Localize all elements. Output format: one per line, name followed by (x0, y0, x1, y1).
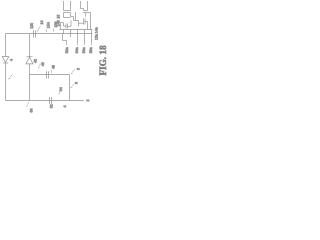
diode D1 (cathode down) (2, 57, 9, 63)
label 62 below C3 (50, 104, 54, 108)
capacitor C3 on bottom rail (50, 97, 52, 104)
lead with jog below main rail, arrow, label 52 (63, 34, 69, 54)
transistor M3 (vertical bars with horizontal leads) (79, 19, 88, 30)
leader arrow to top rail right of C1, label 16 (37, 21, 44, 32)
leader arrow at left rail (8, 74, 13, 79)
wire: block bottom bus (60, 29, 93, 31)
svg-text:15: 15 (56, 15, 60, 19)
wire: step to center vertical (74, 12, 79, 21)
capacitor C1 on top rail (34, 30, 36, 37)
svg-text:48: 48 (51, 65, 55, 69)
svg-text:64: 64 (59, 87, 63, 91)
label 150 with down arrow (above C1) (30, 23, 34, 29)
leader arrow at x53.5 on top rail, label 156 (53, 22, 58, 32)
leader arrow pointing at right vertical, label 6 (70, 82, 78, 88)
arrowhead at right end of main rail, labels 14 and 12 (91, 27, 98, 40)
label 41 (right of D1) (10, 59, 14, 61)
wire: top main horizontal rail (6, 33, 93, 35)
svg-text:3: 3 (77, 68, 81, 70)
svg-text:4: 4 (10, 59, 14, 61)
lead below main rail, arrow, label 54 (75, 34, 79, 54)
caption FIG. 18 (98, 45, 108, 76)
leader arrow at x46.5 on top rail, label 154 (46, 22, 51, 32)
svg-text:4: 4 (63, 106, 67, 108)
leader arrow at bottom-left junction, label 66 (26, 102, 34, 113)
svg-text:62: 62 (50, 104, 54, 108)
svg-text:FIG. 18: FIG. 18 (98, 45, 108, 76)
leader arrow right of C2, label 48 (51, 65, 55, 73)
svg-text:46: 46 (41, 62, 45, 66)
label 4 below bottom rail (63, 106, 67, 108)
leader arrow left of C2, label 46 (38, 62, 45, 68)
leader arrow at junction, label 3 (71, 68, 81, 74)
svg-text:14a: 14a (94, 27, 98, 33)
wire: left column of block (61, 23, 64, 30)
lead below main rail, arrow, label 58 (89, 34, 93, 54)
stub tick below main rail (70, 34, 72, 38)
wire: middle horizontal at y74.5 (30, 74, 70, 76)
svg-text:58a: 58a (89, 47, 93, 53)
transistor M1 (top left cell: U shape + gate bar) (64, 1, 71, 13)
svg-text:66: 66 (30, 109, 34, 113)
leader arrow right of C3 pointing at bottom rail, label 64 (59, 87, 63, 95)
svg-text:52a: 52a (65, 47, 69, 53)
wire: bus ties to main rail (64, 30, 92, 34)
svg-text:54a: 54a (75, 47, 79, 53)
svg-text:16: 16 (40, 21, 44, 25)
svg-text:148: 148 (56, 20, 60, 26)
svg-text:154: 154 (47, 22, 51, 28)
label 42 (right of D2) (33, 59, 37, 63)
wire: bottom horizontal rail (6, 100, 84, 102)
svg-text:2: 2 (86, 100, 90, 102)
wire: branch vertical at x29.5 (29, 34, 31, 101)
svg-text:42: 42 (33, 59, 37, 63)
transistor M2 (top right cell: jogged drain + gate bar) (81, 1, 89, 17)
svg-text:56a: 56a (82, 47, 86, 53)
svg-text:6: 6 (75, 82, 79, 84)
wire: left vertical rail (5, 34, 7, 101)
wire: gate lead of M2 to right rail (88, 13, 91, 30)
svg-text:12a: 12a (94, 34, 98, 40)
capacitor C2 on middle wire (47, 71, 49, 78)
wire: right vertical x69.5 down to bottom rail (69, 75, 71, 101)
wire: center step down (78, 21, 80, 27)
lead below main rail, arrow, label 56 (82, 34, 86, 54)
diode D2 (cathode up) (26, 57, 33, 64)
arrowhead at right end of bottom rail, label 2 (82, 100, 90, 102)
wire: M1 lower legs and mid bar (64, 13, 74, 21)
capacitor C4 inside block (64, 21, 72, 29)
label 148 (left of transistor block, rotated) (56, 15, 60, 27)
